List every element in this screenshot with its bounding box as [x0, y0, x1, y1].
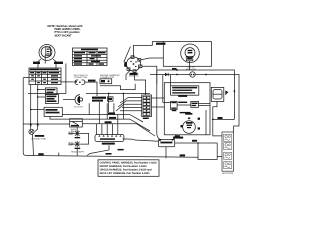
wire: headlight switch step down — [50, 116, 61, 119]
wire: to relay K2 — [38, 96, 46, 98]
wire: small box to ground rail — [165, 147, 167, 159]
junction dot starter drop — [197, 142, 199, 144]
wire: to headlight switch — [31, 109, 44, 111]
interlock module U1 — [95, 134, 124, 141]
note text block — [48, 24, 83, 38]
key switch S1 — [39, 45, 55, 64]
wire: plug down lead — [135, 72, 146, 95]
label GRAY — [33, 62, 40, 64]
wire: module ground run — [87, 145, 109, 155]
label ground connector — [35, 135, 45, 137]
wire: left ground rail — [23, 78, 217, 160]
arrowhead drop a — [30, 125, 32, 127]
label engine harness — [100, 74, 120, 79]
wire: pto drop d — [88, 103, 90, 114]
seat switch S4 — [75, 80, 85, 85]
wire: battery negative lower — [217, 155, 222, 157]
label ORANGE — [54, 62, 63, 64]
wire: drop 156.8 to alternator box — [157, 70, 161, 140]
label RED — [218, 117, 223, 119]
svg-text:FRONT HARNESS, Part Number 1-8: FRONT HARNESS, Part Number 1-8319 — [100, 165, 148, 168]
label lamp1 — [68, 131, 74, 136]
battery BT1 — [222, 132, 234, 171]
junction dot small box — [172, 139, 174, 141]
svg-text:SEAT VACANT: SEAT VACANT — [55, 33, 72, 37]
label ORANGE top — [156, 43, 166, 45]
svg-text:HEADLAMPS: HEADLAMPS — [71, 151, 84, 154]
starter motor M1 — [181, 118, 201, 134]
wire: engine box to small box — [173, 135, 176, 140]
wire: fan out from strip — [116, 98, 142, 111]
interlock switch box S3 — [70, 119, 83, 127]
label interlock module — [102, 143, 115, 145]
arrowhead engine feed — [173, 136, 177, 139]
wire: lamp chain — [76, 127, 78, 130]
wire: orange drop from key — [65, 64, 67, 94]
wire: to relay K1 — [38, 89, 46, 91]
starter solenoid box — [211, 87, 224, 101]
wire: bus y93.5 — [28, 93, 66, 95]
headlight switch box S2 — [44, 107, 62, 116]
label engine below box — [175, 137, 183, 139]
label small box output — [192, 140, 197, 142]
svg-text:BREAKER: BREAKER — [186, 68, 196, 71]
label above starter — [185, 113, 192, 115]
wire: engine box internal drop — [205, 110, 207, 135]
wire: plug to right bus 2 — [142, 66, 157, 83]
wire: drop to engine box a — [162, 75, 164, 103]
wire: J2 feed — [163, 101, 171, 103]
wire: pto drop b — [106, 103, 108, 119]
legend box — [98, 160, 159, 177]
wire: orange top run — [134, 42, 164, 57]
label park switch — [71, 128, 80, 133]
svg-text:CONTROL PANEL HARNESS, Part Nu: CONTROL PANEL HARNESS, Part Number 1-831… — [100, 161, 158, 164]
label fuse small — [172, 68, 177, 70]
wire: strip to engine box — [152, 97, 165, 99]
junction dots bus3 — [30, 123, 32, 125]
label white — [130, 73, 138, 75]
wire: small box output — [175, 142, 218, 144]
engine box — [164, 83, 210, 135]
wire: table mid drop — [35, 85, 38, 132]
wire: red battery feed — [213, 118, 235, 120]
junction dot module output — [159, 140, 161, 142]
wire: bus y70 — [157, 70, 235, 119]
label engine feed — [175, 135, 180, 137]
wire: key switch right lead — [53, 59, 56, 68]
wire: solenoid to battery — [213, 101, 222, 135]
label lamp2 — [68, 142, 74, 147]
wire: lamp loop right — [80, 133, 88, 144]
engine harness block J2 — [171, 101, 178, 109]
wire: bus y123.7 — [23, 123, 69, 125]
relay box K2 — [45, 94, 58, 103]
PTO clutch CL1 — [75, 95, 83, 105]
wire: plug wedge diagonal feed — [124, 47, 131, 63]
wire: bus y119.1 — [61, 119, 150, 131]
arrow at solenoid right — [225, 91, 228, 96]
headlamp L1 — [74, 130, 80, 138]
wire: table left drop — [30, 85, 32, 130]
wire: bus purple y114.6 — [62, 115, 143, 122]
circuit breaker CB1 — [190, 72, 195, 77]
alternator small box — [158, 139, 174, 146]
svg-text:CHASSIS GND: CHASSIS GND — [31, 137, 46, 140]
PTO switch label — [92, 97, 106, 99]
svg-text:CROSS HARNESS, Part Number 2-8: CROSS HARNESS, Part Number 2-8320 and — [100, 169, 152, 172]
svg-text:CLUTCH: CLUTCH — [74, 106, 83, 109]
label circuit breaker — [186, 66, 196, 71]
label ground right — [180, 154, 186, 156]
wire: starter drop — [197, 143, 199, 157]
junction dot bus y74.5 — [205, 74, 207, 76]
headlamp L2 — [74, 141, 80, 149]
wire: ammeter box lead down — [189, 61, 191, 70]
chassis ground connector G1 — [29, 129, 34, 134]
wire: ground connector drop — [33, 134, 34, 155]
label engine module — [129, 72, 140, 78]
label rail center — [106, 153, 112, 155]
label GREEN — [88, 80, 96, 82]
diode D1 — [165, 73, 168, 76]
junction dot solenoid — [212, 119, 214, 121]
svg-text:CONNECTOR: CONNECTOR — [74, 76, 88, 79]
key switch circuits table — [29, 68, 61, 85]
terminal strip TB1 — [142, 95, 152, 117]
circuit parts table — [73, 48, 108, 66]
relay box K1 — [45, 88, 57, 95]
wire: module feeds — [97, 94, 124, 136]
wire: green bus — [61, 81, 74, 83]
junction dot bus y70 — [176, 69, 178, 71]
engine connector plug P1 — [124, 56, 142, 73]
label seat switch — [73, 74, 88, 79]
wire: key switch left lead — [38, 59, 41, 68]
arrowhead on right rail — [233, 91, 235, 94]
arrowhead drop b — [37, 125, 39, 127]
tick on rail — [58, 153, 60, 156]
label bus3 — [105, 121, 112, 123]
wire: bus y85.7 — [100, 84, 135, 90]
wire: bus y74.5 — [150, 74, 190, 76]
junction dots y93.5 — [108, 93, 110, 95]
wire: pto drop c — [113, 103, 115, 114]
svg-text:CONNECTOR: CONNECTOR — [100, 76, 114, 79]
wire: module output — [123, 139, 159, 141]
wire: plug lower diagonal — [126, 71, 130, 81]
wire: clutch feed — [63, 99, 75, 101]
engine harness connector J1 — [100, 79, 112, 84]
wire: plug to right bus 1 — [141, 58, 164, 60]
label bus1 — [108, 112, 115, 114]
svg-text:BATTERY: BATTERY — [222, 172, 233, 175]
label headlamps — [71, 151, 84, 154]
wire: drop to engine box b — [170, 75, 172, 86]
ammeter assembly box — [163, 42, 211, 67]
label module ground — [118, 149, 124, 151]
wire: pto drop a — [98, 102, 100, 124]
label bus2 — [109, 117, 116, 119]
label ground strap — [38, 153, 43, 155]
label under strip — [143, 118, 149, 120]
svg-text:DECK LIFT HARNESS, Part Number: DECK LIFT HARNESS, Part Number 4-8321 — [100, 172, 151, 175]
